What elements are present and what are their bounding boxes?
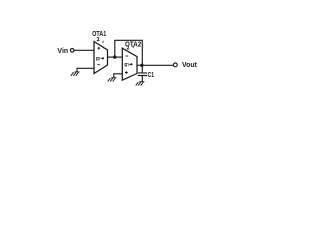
node A junction	[113, 55, 116, 58]
wire OTA2 output to Vout	[137, 64, 173, 66]
node Vin terminal	[70, 49, 74, 53]
wire OTA1 output to OTA2 - input	[108, 56, 123, 58]
pin - of OTA2	[126, 55, 129, 57]
svg-text:Vin: Vin	[57, 46, 68, 55]
wire OTA1 - input to ground	[77, 68, 94, 71]
wire feedback up-and-over (OTA2 out to node A)	[115, 40, 143, 65]
tick mark above OTA1	[97, 38, 100, 41]
svg-text:OTA1: OTA1	[92, 29, 107, 38]
tick mark 2 above OTA2	[132, 46, 134, 48]
arrow inside OTA1	[101, 57, 104, 59]
pin + of OTA1	[97, 47, 100, 50]
op-amp U1 OTA1 body	[94, 42, 108, 74]
wire Vin to OTA1 + input	[74, 49, 94, 51]
svg-text:gm: gm	[124, 62, 129, 68]
tick mark above OTA2	[127, 46, 130, 49]
ground G1	[71, 72, 80, 76]
arrow inside OTA2	[129, 63, 132, 65]
ground G2	[108, 78, 117, 82]
tick mark 2 above OTA1	[102, 41, 104, 43]
wire C1 to ground	[141, 76, 143, 82]
wire OTA2 + input to ground	[114, 74, 123, 78]
node B junction	[140, 64, 143, 67]
capacitor C1	[138, 73, 147, 76]
wire node B down to C1	[141, 65, 143, 72]
pin + of OTA2	[125, 71, 128, 74]
op-amp U2 OTA2 body	[122, 48, 137, 80]
svg-text:gm: gm	[96, 56, 101, 62]
svg-text:C1: C1	[148, 70, 154, 79]
node Vout terminal	[173, 63, 177, 67]
svg-text:Vout: Vout	[182, 60, 198, 69]
ground G3	[136, 82, 145, 86]
pin - of OTA1	[97, 64, 100, 66]
